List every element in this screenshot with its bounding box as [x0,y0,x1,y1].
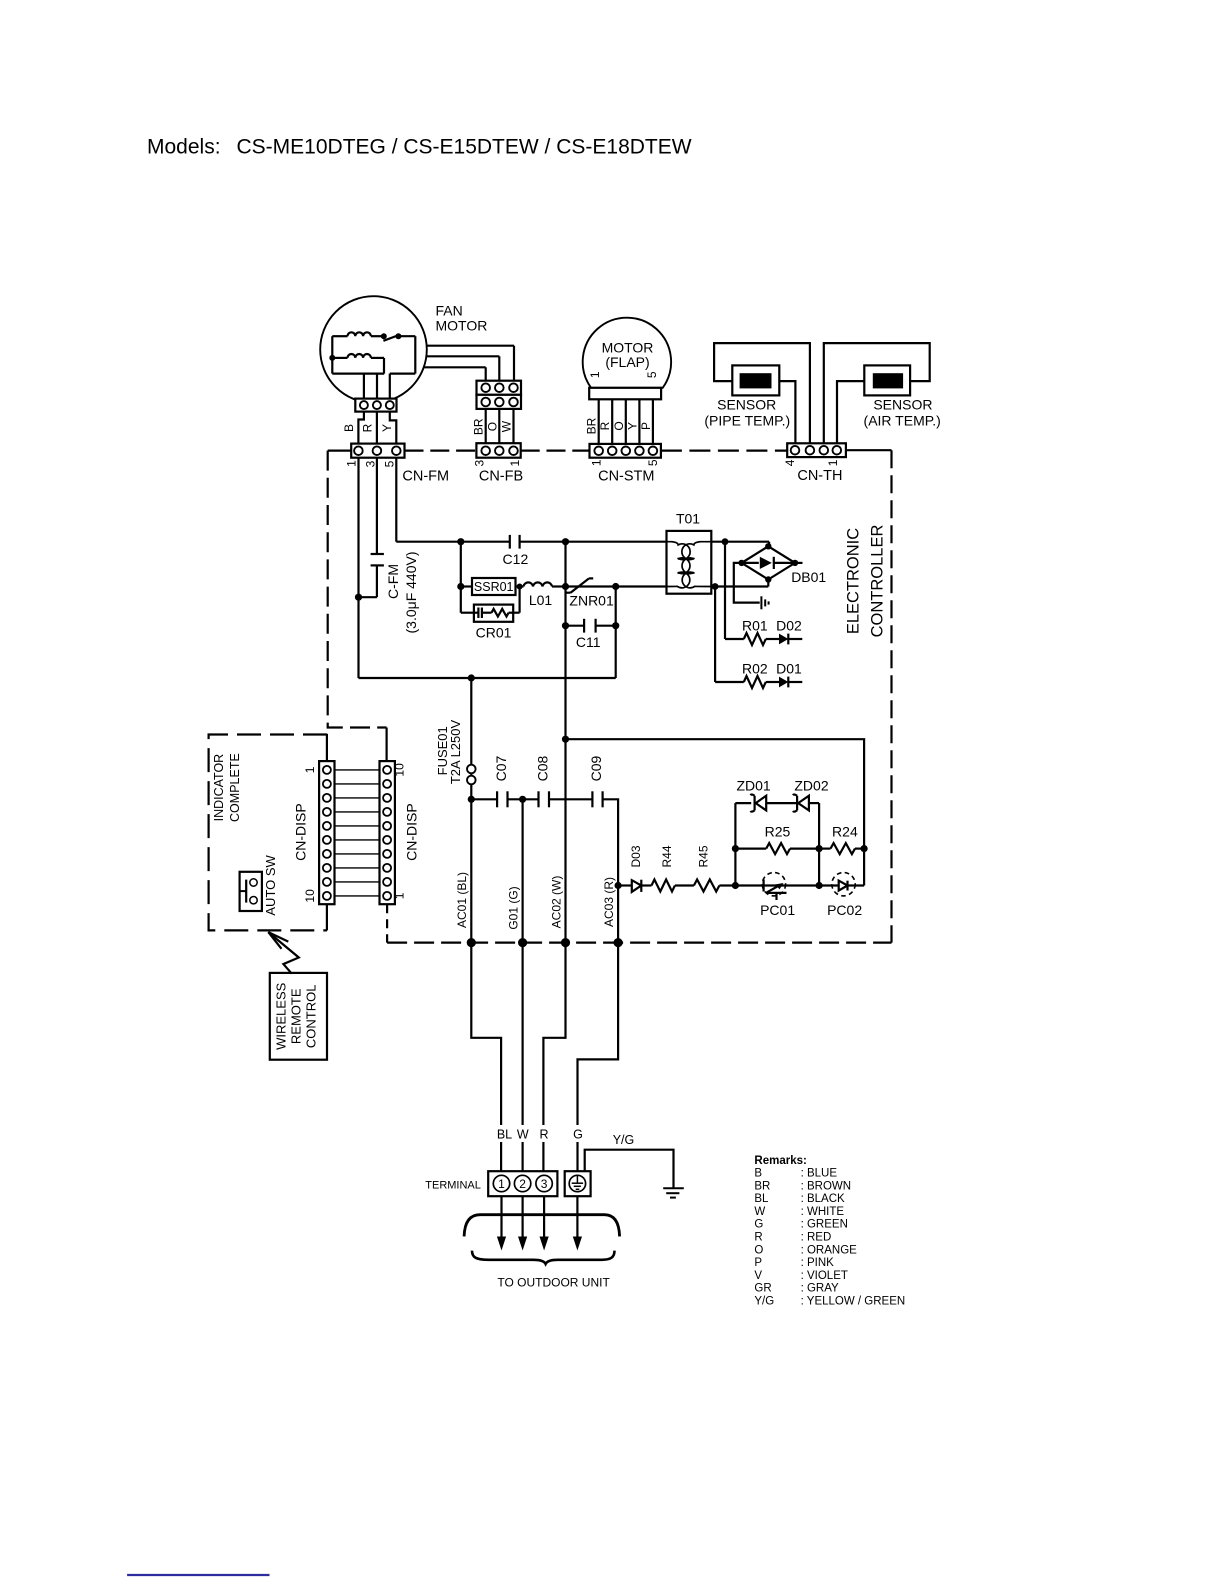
svg-text:D01: D01 [776,661,802,677]
svg-text:CN-STM: CN-STM [598,468,654,484]
svg-text:R01: R01 [742,618,768,634]
svg-text:: YELLOW / GREEN: : YELLOW / GREEN [801,1295,906,1307]
svg-text:CN-FB: CN-FB [479,468,523,484]
svg-text:R24: R24 [832,823,858,839]
svg-text:1: 1 [589,459,603,466]
svg-text:P: P [639,422,653,430]
svg-text:1: 1 [498,1177,505,1191]
svg-text:R: R [539,1128,548,1142]
svg-text:3: 3 [472,459,486,466]
svg-text:3: 3 [541,1177,548,1191]
svg-text:C07: C07 [493,755,509,781]
svg-text:(AIR TEMP.): (AIR TEMP.) [864,412,941,428]
svg-text:DB01: DB01 [791,569,826,585]
svg-text:Models:: Models: [147,136,221,159]
svg-text:R44: R44 [660,845,674,867]
svg-text:: BROWN: : BROWN [801,1180,851,1192]
svg-text:Y/G: Y/G [613,1133,635,1147]
svg-text:O: O [612,421,626,430]
svg-text:COMPLETE: COMPLETE [228,753,242,822]
svg-text:GR: GR [754,1283,771,1295]
svg-text:D03: D03 [629,845,643,867]
svg-text:PC02: PC02 [827,902,862,918]
svg-text:Y: Y [380,424,394,432]
svg-text:AC03 (R): AC03 (R) [602,877,616,927]
svg-text:1: 1 [826,459,840,466]
svg-text:G: G [754,1219,763,1231]
svg-text:FAN: FAN [436,303,463,319]
svg-text:W: W [754,1206,765,1218]
svg-text:R: R [361,423,375,432]
svg-text:ZD01: ZD01 [736,777,770,793]
svg-text:ZNR01: ZNR01 [569,593,614,609]
svg-text:(FLAP): (FLAP) [605,354,649,370]
svg-text:5: 5 [383,460,397,467]
svg-text:R: R [598,421,612,430]
svg-text:B: B [754,1168,762,1180]
svg-text:V: V [754,1270,762,1282]
svg-text:G: G [573,1128,583,1142]
svg-text:SENSOR: SENSOR [873,397,932,413]
svg-text:W: W [517,1128,529,1142]
svg-text:C08: C08 [535,755,551,781]
svg-text:PC01: PC01 [760,902,795,918]
svg-text:CONTROL: CONTROL [304,985,319,1049]
svg-text:: RED: : RED [801,1232,832,1244]
svg-text:BL: BL [754,1193,769,1205]
svg-text:AC01 (BL): AC01 (BL) [455,872,469,928]
svg-text:: ORANGE: : ORANGE [801,1244,858,1256]
svg-text:5: 5 [645,371,659,378]
svg-text:REMOTE: REMOTE [288,988,303,1044]
svg-text:CN-TH: CN-TH [797,468,842,484]
svg-text:T2A L250V: T2A L250V [448,720,463,785]
svg-text:W: W [499,420,513,432]
svg-text:C-FM: C-FM [385,564,401,599]
svg-text:B: B [342,424,356,432]
svg-text:WIRELESS: WIRELESS [274,982,289,1050]
svg-text:MOTOR: MOTOR [436,318,488,334]
svg-text:1: 1 [344,460,358,467]
svg-text:C12: C12 [503,551,529,567]
svg-text:TERMINAL: TERMINAL [425,1179,481,1191]
svg-text:: GRAY: : GRAY [801,1283,839,1295]
svg-text:CN-DISP: CN-DISP [293,803,309,861]
svg-text:CN-FM: CN-FM [402,468,449,484]
svg-text:5: 5 [646,459,660,466]
svg-text:: VIOLET: : VIOLET [801,1270,848,1282]
svg-text:(PIPE TEMP.): (PIPE TEMP.) [704,412,790,428]
svg-text:R45: R45 [697,845,711,867]
svg-text:10: 10 [303,889,317,903]
svg-text:: GREEN: : GREEN [801,1219,848,1231]
svg-text:4: 4 [783,459,797,466]
svg-text:CN-DISP: CN-DISP [403,803,419,861]
svg-text:D02: D02 [776,618,802,634]
svg-text:1: 1 [588,371,602,378]
svg-text:Remarks:: Remarks: [754,1155,806,1167]
svg-text:SSR01: SSR01 [474,580,514,594]
svg-text:1: 1 [303,766,317,773]
svg-text:R: R [754,1232,762,1244]
svg-text:BR: BR [754,1180,770,1192]
svg-text:CR01: CR01 [476,625,512,641]
svg-text:Y/G: Y/G [754,1295,774,1307]
svg-text:G01 (G): G01 (G) [507,886,521,929]
svg-text:1: 1 [508,459,522,466]
svg-text:C09: C09 [588,755,604,781]
svg-text:ZD02: ZD02 [794,777,828,793]
svg-text:O: O [485,422,499,431]
svg-text:BR: BR [585,417,599,434]
svg-text:: BLACK: : BLACK [801,1193,845,1205]
svg-text:Y: Y [625,422,639,430]
svg-text:R25: R25 [765,823,791,839]
svg-text:BR: BR [472,418,486,435]
svg-text:CS-ME10DTEG / CS-E15DTEW / CS-: CS-ME10DTEG / CS-E15DTEW / CS-E18DTEW [237,136,692,159]
svg-text:TO OUTDOOR UNIT: TO OUTDOOR UNIT [497,1275,610,1289]
svg-text:1: 1 [393,892,407,899]
svg-text:ELECTRONIC: ELECTRONIC [844,528,862,634]
svg-text:: WHITE: : WHITE [801,1206,845,1218]
svg-text:C11: C11 [576,634,601,650]
svg-text:(3.0μF 440V): (3.0μF 440V) [403,552,419,634]
svg-text:CONTROLLER: CONTROLLER [868,525,886,638]
svg-text:: PINK: : PINK [801,1257,835,1269]
svg-text:P: P [754,1257,762,1269]
svg-text:T01: T01 [676,511,700,527]
svg-text:AC02 (W): AC02 (W) [550,876,564,929]
svg-text:BL: BL [497,1128,512,1142]
svg-text:INDICATOR: INDICATOR [212,754,226,822]
svg-text:2: 2 [519,1177,526,1191]
svg-text:10: 10 [393,763,407,777]
svg-text:AUTO SW: AUTO SW [263,854,278,915]
svg-text:SENSOR: SENSOR [717,397,776,413]
svg-text:L01: L01 [529,592,553,608]
svg-text:: BLUE: : BLUE [801,1168,838,1180]
svg-text:O: O [754,1244,763,1256]
svg-text:3: 3 [363,460,377,467]
svg-text:R02: R02 [742,661,768,677]
